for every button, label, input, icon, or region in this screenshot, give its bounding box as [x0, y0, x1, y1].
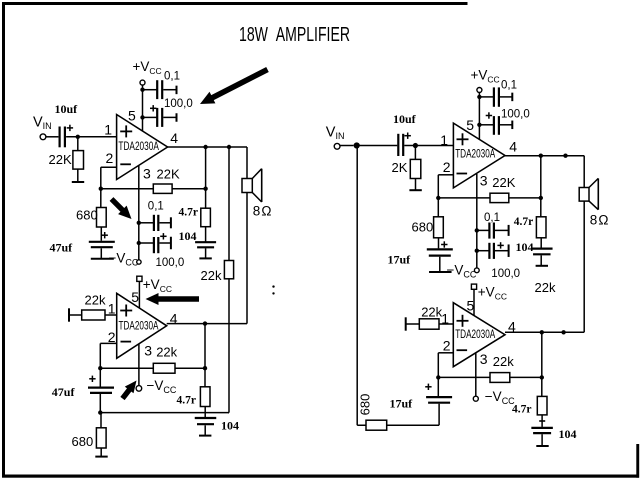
ground tick below C7: [199, 257, 211, 259]
polarity + of C3: [150, 107, 156, 109]
svg-text:0,1: 0,1: [501, 80, 517, 92]
wire R4 to C7: [205, 227, 207, 242]
wire R6 to U2 pin1: [105, 314, 117, 316]
svg-text:100,0: 100,0: [491, 268, 520, 280]
svg-text:8 Ω: 8 Ω: [253, 203, 272, 218]
node C8 / R8 / bridge junction: [98, 410, 102, 414]
svg-text:0,1: 0,1: [148, 200, 164, 212]
wire feedback node to R12: [540, 198, 542, 217]
wire node to C6: [139, 242, 153, 244]
wire R8 to ground tick: [100, 448, 102, 456]
U4 - input symbol: [457, 349, 468, 351]
wire node to C11: [479, 96, 493, 98]
node U4 output / R16 branch: [540, 330, 544, 334]
border frame top edge: [2, 2, 468, 5]
wire C10 to U3 pin1: [404, 145, 453, 147]
svg-text:10uf: 10uf: [393, 112, 417, 126]
wire U2 pin2 horizontal: [100, 342, 116, 344]
svg-text:5: 5: [128, 108, 136, 124]
wire feedback line right segment (right): [509, 197, 541, 199]
wire U3 pin2 down: [437, 175, 439, 198]
svg-text:8 Ω: 8 Ω: [590, 212, 609, 227]
wire node to C12: [479, 124, 493, 126]
capacitor C8 47uf (U2): [88, 387, 114, 389]
capacitor C1 10uf (input, left): [58, 127, 60, 148]
ground tick below R8: [95, 456, 107, 458]
wire C5 to end tick: [159, 222, 171, 224]
svg-text:3: 3: [480, 351, 488, 367]
wire node to R3: [100, 189, 102, 208]
resistor R3 680 (left): [97, 208, 107, 228]
wire node to C2: [143, 89, 157, 91]
wire U4 pin3 down to -Vcc: [475, 352, 477, 396]
svg-text:2: 2: [443, 159, 451, 175]
wire speaker return down (right): [583, 201, 585, 332]
svg-text:47uf: 47uf: [50, 240, 74, 254]
wire speaker feed (right): [583, 156, 585, 188]
wire speaker return down to U2 output: [246, 193, 248, 324]
node U2 feedback / R9 branch: [203, 366, 207, 370]
+Vcc square terminal (U2): [137, 276, 142, 281]
svg-text:10uf: 10uf: [55, 102, 79, 116]
-Vcc terminal (U1): [137, 260, 141, 264]
annotation arrow (to 0,1 cap): [112, 199, 125, 212]
wire U4 feedback left segment: [438, 376, 490, 378]
capacitor C16 104 (right top): [531, 248, 553, 250]
svg-text:1: 1: [440, 132, 448, 148]
node +Vcc / C11: [477, 95, 481, 99]
wire U2 pin3 down to -Vcc: [138, 344, 140, 386]
ground tick below C16: [536, 265, 548, 267]
capacitor C3 100,0 (+Vcc bypass, left): [156, 108, 158, 127]
svg-text:17uf: 17uf: [388, 253, 412, 267]
wire node to C14: [477, 229, 489, 231]
wire input return up to Vin node: [356, 146, 358, 426]
capacitor C14 0,1 (-Vcc bypass, right): [488, 223, 490, 239]
svg-text:4.7r: 4.7r: [177, 395, 196, 407]
resistor R7 22k (feedback U2): [153, 363, 175, 373]
wire Vin to input node: [340, 145, 354, 147]
capacitor C15 100,0 (-Vcc bypass, right): [488, 243, 490, 259]
resistor R14 22k (input U4): [419, 319, 439, 329]
wire node to R13: [437, 198, 439, 217]
stray tick on wire above C18: [539, 420, 545, 422]
wire tick to R14: [406, 323, 420, 325]
node Vin junction (right): [354, 142, 360, 148]
node +Vcc / C2: [140, 88, 144, 92]
wire output node down to feedback: [205, 147, 207, 189]
end tick of C5: [170, 217, 172, 228]
wire C13 to ground tick: [439, 257, 441, 272]
polarity + of C4: [102, 234, 108, 236]
wire C3 to end tick: [163, 116, 176, 118]
resistor R1 22K (input shunt): [73, 151, 84, 170]
polarity + of C6: [160, 235, 166, 237]
svg-text:0,1: 0,1: [164, 70, 180, 82]
wire node to R8: [100, 413, 102, 428]
end tick of C12: [511, 121, 513, 130]
wire R16 to C18: [541, 415, 543, 427]
wire input node to C10: [357, 145, 398, 147]
node U4 pin2 / C17 junction: [436, 375, 440, 379]
wire feedback node to R4: [205, 189, 207, 209]
svg-text:22K: 22K: [157, 167, 180, 182]
svg-text:2K: 2K: [392, 160, 408, 175]
wire U3 pin3 down to -Vcc: [476, 174, 478, 268]
wire C18 to ground tick: [541, 434, 543, 445]
capacitor C18 104 (right bottom): [531, 427, 553, 429]
resistor R10 2K (input shunt, right): [410, 159, 421, 178]
U3 + input symbol: [457, 138, 469, 140]
capacitor C17 17uf (U4): [426, 396, 452, 398]
U1 - input symbol: [120, 163, 131, 165]
node U2 pin2 / C8 junction: [98, 366, 102, 370]
wire input return line (right): [357, 424, 439, 426]
speaker SP1 8-ohm (left): [242, 179, 252, 193]
node feedback / R4 branch: [203, 187, 207, 191]
wire tick to R6: [69, 314, 82, 316]
svg-text:104: 104: [179, 229, 197, 243]
wire node to C17: [437, 377, 439, 396]
node +Vcc / C3: [140, 115, 144, 119]
wire U2 feedback right segment: [175, 367, 205, 369]
svg-text:1: 1: [104, 122, 112, 138]
wire node to C8: [99, 368, 101, 386]
-Vcc terminal (U4): [473, 396, 478, 401]
svg-text:680: 680: [72, 434, 94, 449]
wire C6 to end tick: [159, 242, 171, 244]
annotation arrow (to U2 -Vcc): [123, 388, 131, 399]
node U4 output (phantom bridge): [561, 330, 565, 334]
svg-text:4: 4: [509, 139, 517, 155]
wire R14 to U4 pin1: [439, 323, 453, 325]
end tick of C15: [508, 244, 510, 257]
svg-text:2: 2: [443, 338, 451, 354]
svg-text:TDA2030A: TDA2030A: [455, 327, 495, 341]
svg-text:3: 3: [143, 165, 151, 181]
wire U3 pin2 horizontal: [438, 174, 453, 176]
ground tick below C18: [536, 445, 548, 447]
wire U3 output (pin4): [505, 155, 584, 157]
wire C11 to end tick: [500, 96, 512, 98]
wire U1 pin3 down to -Vcc: [138, 165, 140, 260]
+Vcc square terminal (U4): [471, 284, 476, 289]
capacitor C4 47uf (left): [89, 241, 115, 243]
ground tick below C9: [199, 435, 211, 437]
svg-text:680: 680: [358, 394, 373, 416]
capacitor C13 17uf (right): [427, 248, 453, 250]
capacitor C11 0,1 (+Vcc bypass, right): [493, 87, 495, 106]
wire +Vcc terminal to U2 pin5: [138, 281, 140, 308]
U2 - input symbol: [121, 341, 132, 343]
wire ground node to bridge line: [100, 412, 229, 414]
-Vcc terminal (U3): [474, 268, 479, 273]
U4 + input symbol: [457, 320, 469, 322]
annotation arrow (to U2 +Vcc): [155, 296, 199, 302]
ground tick below R1: [72, 181, 84, 183]
svg-text:22k: 22k: [421, 305, 442, 320]
node U3 output / bridge branch: [563, 154, 567, 158]
annotation arrow (to +Vcc caps): [209, 70, 267, 100]
wire node to C15: [477, 250, 489, 252]
op-amp U1 TDA2030A (left top): [117, 115, 168, 180]
op-amp U3 TDA2030A (right top): [453, 123, 505, 188]
wire U4 output (pin4): [505, 331, 584, 333]
+Vcc terminal (U3): [477, 88, 482, 93]
node feedback / R12 branch (right): [539, 196, 543, 200]
svg-text:680: 680: [76, 208, 98, 223]
wire feedback line left segment: [101, 188, 154, 190]
polarity + of C8: [89, 378, 95, 380]
resistor R4 4.7r (left top): [201, 208, 211, 227]
ground tick below R10: [409, 189, 421, 191]
node U1 output / feedback branch: [203, 145, 207, 149]
wire U4 pin2 horizontal: [438, 352, 453, 354]
resistor R13 680 (right): [434, 217, 444, 238]
svg-text:104: 104: [516, 240, 534, 254]
wire +Vcc terminal to U3 pin5: [478, 93, 480, 140]
node U3 output / feedback branch: [539, 154, 543, 158]
svg-text:22k: 22k: [201, 268, 222, 283]
svg-text:3: 3: [480, 172, 488, 188]
resistor R5 22k (bridge, left): [224, 261, 233, 279]
resistor R12 4.7r (right top): [536, 217, 546, 238]
node U4 feedback / R16 branch: [540, 375, 544, 379]
wire output node down to feedback: [540, 156, 542, 198]
node pin3 / C15 (right): [475, 249, 479, 253]
svg-text:17uf: 17uf: [390, 396, 414, 410]
speaker SP2 8-ohm (right): [579, 188, 589, 202]
wire speaker feed down: [246, 147, 248, 179]
resistor R8 680 (U2): [96, 428, 106, 448]
wire C9 to ground tick: [204, 425, 206, 435]
border frame right edge (partial): [636, 444, 639, 478]
U1 + input symbol: [120, 130, 132, 132]
svg-text:22K: 22K: [492, 175, 515, 190]
node U2 output / R9 branch: [203, 321, 207, 325]
capacitor C5 0,1 (-Vcc bypass, left): [153, 215, 155, 231]
wire R10 to ground tick: [415, 179, 417, 190]
capacitor C12 100,0 (+Vcc bypass, right): [493, 116, 495, 135]
polarity + of C1: [67, 127, 73, 129]
border frame left edge: [2, 2, 5, 478]
wire node to R10: [414, 146, 416, 160]
resistor R9 4.7r (left bottom): [200, 387, 210, 407]
svg-text:4.7r: 4.7r: [179, 207, 198, 219]
resistor R17 680 (horizontal, right): [366, 420, 387, 430]
svg-text:3: 3: [144, 343, 152, 359]
svg-text:4: 4: [170, 130, 178, 146]
svg-text:18W AMPLIFIER: 18W AMPLIFIER: [239, 24, 350, 46]
resistor R11 22K (feedback U3): [490, 193, 509, 202]
wire U4 output node down: [541, 332, 543, 396]
svg-text:1: 1: [108, 301, 116, 317]
+Vcc terminal (U1): [140, 80, 145, 85]
node pin3 / C14 (right): [475, 228, 479, 232]
input open tick (U4): [405, 317, 407, 330]
svg-text:2: 2: [106, 150, 114, 166]
svg-text:22K: 22K: [49, 152, 72, 167]
node pin2 / R3 junction: [99, 187, 103, 191]
node pin2 / R13 junction (right): [436, 196, 440, 200]
polarity + of C17: [425, 386, 431, 388]
wire C7 to ground tick: [205, 248, 207, 257]
wire C4 to ground tick: [100, 248, 102, 258]
capacitor C7 104 (left top): [195, 241, 216, 243]
op-amp U2 TDA2030A (left bottom): [117, 293, 167, 358]
wire Vin to C1: [46, 136, 59, 138]
capacitor C6 100,0 (-Vcc bypass, left): [153, 237, 155, 253]
wire R3 to C4: [100, 227, 102, 241]
svg-text:TDA2030A: TDA2030A: [455, 147, 495, 161]
wire C8 to ground node: [99, 394, 101, 413]
wire +Vcc terminal to U1 pin5: [142, 85, 144, 131]
input terminal Vin (left): [40, 134, 46, 140]
wire C14 to end tick: [495, 229, 509, 231]
end tick of C2: [176, 86, 178, 95]
svg-text:104: 104: [221, 418, 239, 432]
wire C12 to end tick: [500, 124, 512, 126]
resistor R6 22k (input U2): [82, 310, 105, 320]
wire U2 output (pin4): [167, 323, 247, 325]
wire R1 to ground tick: [77, 169, 79, 181]
polarity + of C13: [441, 244, 447, 246]
svg-text:22k: 22k: [493, 354, 514, 369]
svg-text:5: 5: [466, 117, 474, 133]
svg-text:22k: 22k: [85, 293, 106, 308]
ground tick below C4: [91, 258, 114, 260]
polarity + of C10: [405, 135, 411, 137]
svg-text:22k: 22k: [535, 280, 556, 295]
end tick of C11: [511, 93, 513, 102]
wire node to C3: [143, 116, 157, 118]
end tick of C14: [508, 225, 510, 236]
wire C2 to end tick: [163, 89, 176, 91]
wire U2 pin2 down: [99, 343, 101, 368]
node U1 output / bridge branch: [227, 145, 231, 149]
wire U4 pin2 down: [437, 353, 439, 378]
wire C1 to U1 pin1: [66, 136, 117, 138]
input open tick (U2): [68, 308, 70, 321]
wire output to bridge resistor R5: [228, 147, 230, 261]
wire U1 output (pin4): [168, 146, 247, 148]
wire U2 output node down: [204, 324, 206, 387]
svg-text:100,0: 100,0: [501, 108, 530, 120]
svg-text:4.7r: 4.7r: [514, 216, 533, 228]
node +Vcc / C12: [477, 123, 481, 127]
capacitor C9 104 (left bottom): [195, 417, 217, 419]
wire R5 down to U2 ground node: [228, 279, 230, 413]
svg-text:104: 104: [559, 427, 577, 441]
svg-text:2: 2: [108, 329, 116, 345]
end tick of C3: [176, 113, 178, 122]
wire R12 to C16: [540, 238, 542, 248]
wire node to C5: [139, 222, 153, 224]
capacitor C2 0,1 (+Vcc bypass, left): [156, 80, 158, 99]
polarity + of C15: [497, 244, 503, 246]
node C1/R1 junction: [76, 135, 80, 139]
svg-text:100,0: 100,0: [156, 257, 185, 269]
U3 - input symbol: [457, 173, 468, 175]
wire C16 to ground tick: [540, 255, 542, 265]
U2 + input symbol: [120, 310, 132, 312]
border frame bottom edge: [2, 475, 639, 478]
ground tick below C13: [429, 271, 452, 273]
stray mark dots: [272, 285, 274, 287]
wire C15 to end tick: [495, 250, 509, 252]
resistor R2 22K (feedback U1): [153, 184, 172, 193]
wire R13 to C13: [438, 238, 440, 249]
-Vcc terminal (U2): [136, 386, 142, 392]
node pin3 / C5: [137, 221, 141, 225]
svg-text:47uf: 47uf: [52, 385, 76, 399]
end tick of C6: [170, 237, 172, 250]
svg-text:5: 5: [131, 289, 139, 305]
resistor R15 22k (feedback U4): [490, 373, 510, 383]
op-amp U4 TDA2030A (right bottom): [453, 303, 505, 367]
capacitor C10 10uf (input, right): [397, 134, 399, 156]
svg-text:100,0: 100,0: [164, 98, 193, 110]
wire U1 pin2 down: [100, 167, 102, 189]
svg-text:22k: 22k: [156, 344, 177, 359]
wire node to R1: [77, 137, 79, 151]
svg-text:680: 680: [412, 219, 434, 234]
input terminal Vin (right): [334, 143, 340, 149]
node C10/R10 junction: [413, 143, 418, 148]
polarity + of C12: [486, 115, 492, 117]
resistor R16 4.7r (right bottom): [537, 396, 547, 415]
wire C17 down to input return line: [438, 404, 440, 426]
wire R9 to C9: [204, 407, 206, 418]
wire U4 feedback right segment: [510, 376, 542, 378]
svg-text:4.7r: 4.7r: [512, 404, 531, 416]
svg-text:0,1: 0,1: [484, 212, 500, 224]
wire feedback line right segment: [172, 188, 206, 190]
svg-text:TDA2030A: TDA2030A: [118, 139, 158, 153]
wire feedback line left segment (right): [438, 197, 490, 199]
wire U2 feedback left segment: [100, 367, 153, 369]
node pin3 / C6: [137, 241, 141, 245]
wire +Vcc terminal to U4 pin5: [473, 289, 475, 315]
wire U1 pin2 horizontal: [101, 166, 117, 168]
svg-text:TDA2030A: TDA2030A: [119, 319, 159, 333]
